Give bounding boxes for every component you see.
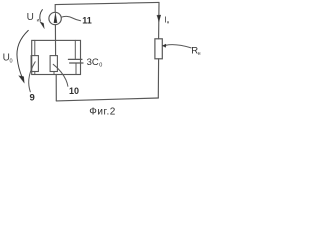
svg-text:9: 9 [30, 93, 35, 104]
svg-text:Фиг.2: Фиг.2 [89, 107, 116, 118]
wire right vertical lower [157, 59, 159, 98]
svg-text:н: н [198, 51, 201, 57]
current direction arrow In [157, 15, 161, 22]
arrowhead of U arc [40, 22, 44, 29]
wire stub resistor 9 to box bottom [34, 72, 36, 75]
voltage arc for U [40, 10, 43, 21]
wire stub from top wire to current source top [54, 5, 56, 13]
svg-text:10: 10 [69, 86, 79, 96]
voltage arc for U0 [17, 30, 28, 77]
wire right vertical upper [158, 2, 160, 38]
wire top horizontal [55, 2, 159, 4]
leader line to label 10 [53, 64, 68, 86]
wire stub box top to capacitor 3C0 [74, 40, 76, 59]
leader line from Rn label [166, 45, 192, 48]
resistor 9 [31, 56, 38, 72]
capacitor 3C0 top plate [68, 58, 82, 60]
svg-text:11: 11 [82, 16, 92, 26]
svg-text:U: U [27, 12, 34, 23]
current source arrow (up) [54, 13, 57, 23]
arrowhead pointing at Rn [162, 44, 166, 47]
svg-text:0: 0 [10, 59, 13, 65]
wire stub box top to resistor 9 [34, 40, 36, 55]
svg-text:н: н [167, 20, 170, 25]
load resistor Rn [155, 39, 162, 59]
svg-text:3C: 3C [87, 57, 99, 68]
wire from box bottom to bottom wire [55, 75, 57, 101]
wire stub resistor 10 to box bottom [53, 72, 55, 75]
svg-text:и: и [37, 18, 40, 23]
leader line to label 9 [29, 62, 35, 92]
wire bottom horizontal [56, 98, 158, 101]
leader line to label 11 [61, 16, 80, 20]
current source U1 (circle) [49, 12, 61, 24]
capacitor 3C0 bottom plate [70, 62, 83, 64]
wire from current source down through box top to resistor 10 [54, 25, 56, 56]
equivalent-circuit box (block 9-10) [32, 40, 81, 74]
wire stub capacitor to box bottom [75, 63, 77, 74]
arrowhead of U0 arc [19, 76, 25, 83]
resistor 10 [50, 56, 57, 72]
svg-text:0: 0 [99, 63, 102, 69]
